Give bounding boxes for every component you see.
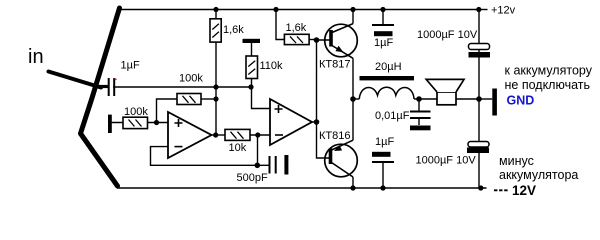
- node 1.6k / KT817 base: [314, 37, 320, 43]
- svg-text:1000µF 10V: 1000µF 10V: [416, 155, 477, 167]
- svg-text:к аккумулятору: к аккумулятору: [505, 63, 593, 77]
- wire op-amp U1 - input feedback loop: [151, 147, 269, 166]
- wire input signal (1uF to node): [113, 86, 251, 88]
- capacitor 1000uF 10V upper: [469, 44, 490, 50]
- node 10k / U2 - input: [255, 132, 260, 137]
- wire KT817 emitter to output node: [352, 58, 354, 99]
- dashes before 12V: [494, 189, 508, 191]
- GND contact bar: [492, 89, 497, 116]
- wire 110k branch down to op-amp U2 + input: [252, 43, 271, 109]
- wire 10k node down to 500pF node: [257, 135, 259, 165]
- resistor 1.6k horizontal: [284, 34, 309, 44]
- capacitor 1000uF 10V lower: [468, 142, 489, 148]
- transistor KT816: [325, 140, 358, 177]
- wire bottom -12V rail: [117, 187, 487, 189]
- wire 10k to op-amp U2 - input: [250, 134, 270, 136]
- wire ground bar to 100k to op-amp U1 + input: [112, 122, 168, 124]
- wire stub after +12v dot: [481, 9, 488, 11]
- wire speaker to right rail: [456, 98, 479, 100]
- resistor 10k: [225, 129, 250, 140]
- capacitor 1uF upper (at KT817): [372, 10, 394, 26]
- inductor core bar: [360, 76, 415, 80]
- wire output node to inductor: [353, 98, 359, 100]
- wire op-amp U1 output to 10k: [212, 134, 226, 136]
- svg-text:in: in: [28, 46, 44, 68]
- op-amp U1: [168, 112, 212, 158]
- svg-text:аккумулятора: аккумулятора: [499, 168, 578, 182]
- svg-text:1µF: 1µF: [375, 136, 394, 148]
- svg-text:1000µF 10V: 1000µF 10V: [417, 29, 478, 41]
- svg-text:500pF: 500pF: [237, 172, 268, 184]
- svg-text:1,6k: 1,6k: [223, 24, 244, 36]
- capacitor 1uF input: [97, 78, 114, 96]
- node 500pF / feedback: [254, 163, 260, 169]
- wire right vertical rail: [478, 10, 480, 189]
- svg-text:1µF: 1µF: [374, 37, 393, 49]
- wire KT817 base: [317, 39, 330, 41]
- ground bar (input divider): [108, 115, 112, 133]
- svg-text:100k: 100k: [124, 106, 148, 118]
- resistor 100k (lower, to + input): [123, 117, 148, 128]
- speaker: [426, 79, 464, 104]
- node bottom rail / 1uF: [380, 185, 385, 190]
- transistor KT817: [325, 24, 358, 59]
- wire KT817 collector to rail: [352, 10, 354, 24]
- wire +12V top rail: [118, 9, 479, 11]
- node bottom rail / KT816 collector: [350, 185, 355, 190]
- node bottom rail end: [478, 185, 483, 190]
- red mark: [115, 79, 117, 80]
- node 0.01uF / speaker: [416, 96, 422, 102]
- node signal wire / 1.6k: [213, 84, 218, 89]
- node top rail / KT817 collector: [350, 7, 355, 12]
- svg-text:+12v: +12v: [491, 5, 516, 17]
- svg-text:110k: 110k: [260, 60, 284, 72]
- wire feedback 100k right to 1.6k column: [201, 98, 216, 100]
- resistor 1.6k vertical: [210, 19, 221, 42]
- svg-text:0,01µF: 0,01µF: [375, 110, 410, 122]
- wire KT816 collector to bottom rail: [352, 177, 354, 188]
- node top rail / 1uF: [380, 7, 385, 12]
- node dots: [154, 7, 484, 191]
- node top rail / 1.6k: [213, 7, 218, 12]
- capacitor 500pF: [270, 156, 276, 174]
- inductor 20uH: [359, 87, 414, 99]
- capacitor 0.01uF: [410, 99, 431, 125]
- wire right rail to GND contact: [479, 98, 492, 100]
- svg-text:12V: 12V: [512, 183, 536, 198]
- node right rail / speaker: [476, 96, 482, 102]
- node top rail / 1.6k horizontal drop: [273, 7, 278, 12]
- svg-text:GND: GND: [507, 93, 535, 107]
- capacitor 1uF lower (at KT816): [372, 152, 391, 157]
- node 1.6k / feedback 100k: [213, 96, 218, 101]
- wire base column vertical: [317, 40, 330, 159]
- svg-text:1,6k: 1,6k: [286, 22, 307, 34]
- node signal wire / 110k: [248, 84, 253, 89]
- node amp output: [350, 96, 356, 102]
- svg-text:100k: 100k: [179, 72, 203, 84]
- resistor 100k (feedback): [177, 94, 201, 105]
- wire inductor to 0.01uF node: [414, 98, 419, 100]
- svg-text:КТ816: КТ816: [319, 130, 350, 142]
- node U1 output: [213, 132, 218, 137]
- svg-text:минус: минус: [499, 154, 534, 168]
- node top rail / +12v: [476, 7, 481, 12]
- wire node to speaker: [419, 98, 437, 100]
- ground bar after 500pF: [284, 155, 288, 175]
- node U1 + input: [154, 120, 159, 125]
- op-amp U2: [270, 99, 312, 145]
- resistor 110k: [246, 56, 258, 79]
- node U2 output: [314, 119, 320, 125]
- input bracket (hand-drawn): [81, 8, 120, 186]
- svg-text:не подключать: не подключать: [505, 78, 591, 92]
- wire op-amp U2 output to base column: [312, 121, 317, 123]
- wire 1.6k vertical branch: [215, 10, 217, 136]
- ground bar above 110k: [243, 39, 261, 43]
- wire feedback 100k left to + node: [157, 99, 178, 123]
- svg-text:1µF: 1µF: [121, 60, 140, 72]
- wire KT816 emitter to output node: [352, 99, 354, 140]
- wire 1.6k to transistor base column: [309, 39, 316, 41]
- svg-text:20µH: 20µH: [375, 61, 402, 73]
- ground bar below 0.01uF: [410, 126, 431, 131]
- wire top rail drop to 1.6k horizontal: [276, 10, 284, 40]
- svg-text:10k: 10k: [229, 142, 247, 154]
- in pointer line: [49, 72, 102, 88]
- svg-text:КТ817: КТ817: [319, 58, 350, 70]
